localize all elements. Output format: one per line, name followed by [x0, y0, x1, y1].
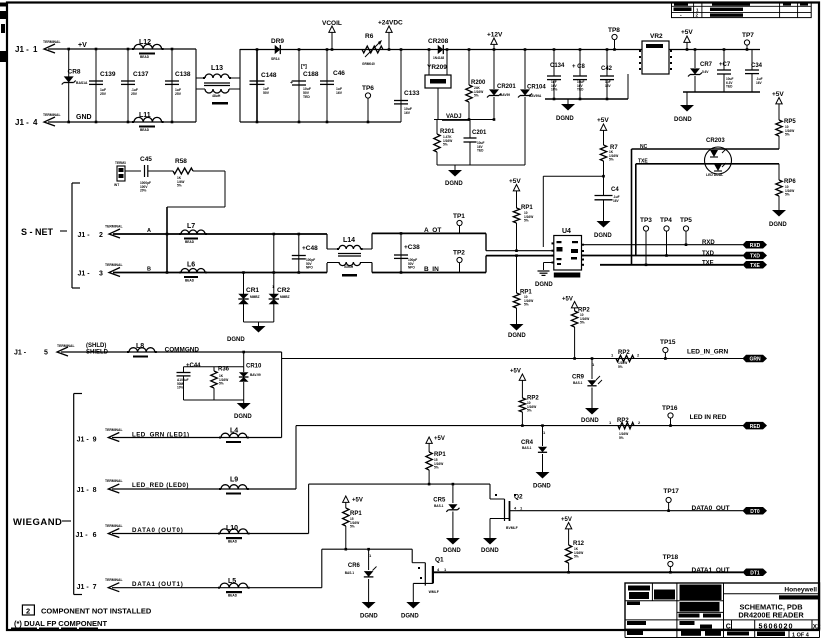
svg-text:TERMINAL: TERMINAL	[105, 428, 123, 432]
svg-text:5%: 5%	[177, 184, 182, 188]
svg-text:C: C	[726, 623, 731, 630]
svg-text:4: 4	[33, 118, 38, 127]
svg-text:L6: L6	[187, 262, 195, 269]
svg-text:CR208: CR208	[428, 38, 449, 45]
svg-text:J1 -: J1 -	[77, 584, 90, 591]
svg-text:COMPONENT NOT INSTALLED: COMPONENT NOT INSTALLED	[41, 607, 152, 616]
svg-text:16V: 16V	[756, 81, 763, 85]
svg-text:A_OT: A_OT	[424, 227, 441, 234]
svg-text:TXE: TXE	[702, 260, 714, 266]
svg-text:5%: 5%	[618, 365, 623, 369]
svg-text:L7: L7	[187, 223, 195, 230]
svg-text:GRM040: GRM040	[362, 62, 375, 66]
svg-text:J1 -: J1 -	[15, 45, 29, 54]
svg-text:1: 1	[369, 553, 372, 558]
svg-text:5%: 5%	[609, 158, 614, 162]
svg-text:C188: C188	[303, 71, 319, 78]
svg-text:BEAD: BEAD	[228, 594, 238, 598]
svg-text:BEAD: BEAD	[185, 240, 195, 244]
svg-text:+5V: +5V	[597, 117, 609, 124]
svg-text:LED_IN_GRN: LED_IN_GRN	[687, 349, 728, 356]
svg-text:MMBZ: MMBZ	[280, 295, 290, 299]
svg-text:+V: +V	[78, 42, 87, 49]
svg-text:BAS.1: BAS.1	[345, 571, 355, 575]
svg-text:SHIELD: SHIELD	[86, 350, 109, 356]
svg-text:RP2: RP2	[617, 418, 629, 424]
svg-text:5%: 5%	[619, 436, 624, 440]
svg-text:TP15: TP15	[660, 339, 676, 346]
svg-text:BVMLF: BVMLF	[506, 526, 518, 530]
svg-text:C34: C34	[751, 63, 763, 69]
svg-text:1: 1	[609, 420, 612, 425]
svg-text:DGND: DGND	[581, 418, 599, 424]
svg-text:CR6: CR6	[348, 563, 361, 569]
svg-text:+5V: +5V	[562, 297, 573, 303]
svg-text:BEAD: BEAD	[228, 540, 238, 544]
svg-text:TP8: TP8	[608, 27, 620, 34]
svg-text:TXD: TXD	[702, 251, 715, 257]
svg-text:+5V: +5V	[509, 178, 521, 185]
svg-text:J1 -: J1 -	[76, 532, 89, 539]
svg-text:+5V: +5V	[352, 498, 363, 504]
svg-text:TP5: TP5	[680, 217, 692, 224]
svg-text:DT0: DT0	[750, 509, 760, 515]
svg-text:B: B	[147, 267, 151, 273]
svg-text:C4: C4	[611, 187, 619, 193]
svg-text:CR201: CR201	[497, 84, 516, 90]
svg-text:LED DUAL: LED DUAL	[706, 173, 723, 177]
svg-text:1: 1	[33, 45, 38, 54]
svg-text:1: 1	[520, 506, 523, 511]
svg-text:C138: C138	[175, 71, 191, 78]
svg-text:BAS.1: BAS.1	[434, 504, 444, 508]
svg-text:3: 3	[99, 271, 103, 278]
svg-text:L9: L9	[230, 477, 238, 484]
svg-text:1: 1	[444, 567, 447, 572]
svg-text:48uH: 48uH	[212, 94, 221, 98]
svg-text:RXD: RXD	[750, 243, 761, 249]
svg-text:2: 2	[638, 420, 641, 425]
svg-text:1: 1	[611, 353, 614, 358]
svg-text:RP2: RP2	[618, 350, 630, 356]
svg-text:CR203: CR203	[706, 138, 725, 144]
svg-text:DGND: DGND	[401, 614, 419, 620]
svg-text:TP18: TP18	[663, 554, 679, 561]
svg-text:[*]: [*]	[301, 64, 307, 70]
svg-text:C201: C201	[472, 130, 487, 136]
svg-text:1: 1	[592, 362, 595, 367]
svg-text:1: 1	[272, 284, 275, 289]
svg-text:R36: R36	[218, 367, 230, 373]
svg-text:25V: 25V	[131, 92, 138, 96]
svg-text:+C48: +C48	[302, 245, 318, 252]
svg-text:2: 2	[99, 232, 103, 239]
svg-text:5%: 5%	[350, 525, 355, 529]
svg-text:DATA1_OUT: DATA1_OUT	[692, 567, 730, 574]
svg-text:BEAD: BEAD	[140, 55, 150, 59]
svg-text:TXE: TXE	[638, 159, 648, 165]
svg-text:CR7: CR7	[700, 62, 713, 68]
svg-text:9: 9	[93, 437, 97, 444]
svg-text:WIEGAND: WIEGAND	[13, 517, 62, 528]
svg-text:C46: C46	[333, 70, 345, 77]
svg-text:J1 -: J1 -	[77, 487, 90, 494]
svg-text:10%: 10%	[177, 386, 184, 390]
svg-text:8: 8	[93, 487, 97, 494]
svg-text:TP17: TP17	[663, 488, 679, 495]
svg-text:6: 6	[93, 532, 97, 539]
svg-text:20%: 20%	[140, 189, 147, 193]
svg-text:LED_GRN (LED1): LED_GRN (LED1)	[132, 432, 190, 439]
svg-text:16V: 16V	[404, 111, 411, 115]
svg-text:TP4: TP4	[660, 217, 672, 224]
svg-text:C134: C134	[550, 63, 565, 69]
svg-text:DGND: DGND	[360, 614, 378, 620]
svg-text:TP16: TP16	[662, 405, 678, 412]
svg-text:+5V: +5V	[681, 29, 693, 36]
svg-text:NPO: NPO	[408, 266, 415, 270]
svg-text:S - NET: S - NET	[21, 227, 54, 237]
svg-text:16V: 16V	[336, 91, 343, 95]
svg-text:TERMINAL: TERMINAL	[43, 40, 61, 44]
svg-text:53mH: 53mH	[344, 265, 354, 269]
svg-text:J1 -: J1 -	[14, 350, 27, 357]
svg-text:DATA0 (OUT0): DATA0 (OUT0)	[132, 527, 184, 534]
svg-text:B_IN: B_IN	[424, 266, 439, 273]
svg-text:C42: C42	[601, 66, 613, 72]
svg-text:+C7: +C7	[719, 62, 731, 68]
svg-text:DR4200E READER: DR4200E READER	[738, 611, 804, 620]
svg-text:4: 4	[437, 567, 440, 572]
svg-text:DGND: DGND	[227, 337, 245, 343]
svg-text:+C38: +C38	[404, 244, 420, 251]
svg-text:16V: 16V	[605, 84, 612, 88]
svg-text:X2: X2	[813, 623, 821, 630]
svg-text:25V: 25V	[100, 92, 107, 96]
svg-text:BAV.99: BAV.99	[250, 373, 261, 377]
svg-text:BEAD: BEAD	[185, 279, 195, 283]
svg-text:CR10: CR10	[246, 364, 262, 370]
svg-text:DGND: DGND	[481, 548, 499, 554]
svg-text:YR209: YR209	[427, 64, 447, 71]
svg-text:25V: 25V	[175, 92, 182, 96]
svg-text:+C44: +C44	[186, 363, 201, 369]
svg-text:+5V: +5V	[434, 436, 445, 442]
svg-text:TERMINAL: TERMINAL	[43, 113, 61, 117]
svg-text:5606020: 5606020	[759, 622, 794, 631]
svg-text:+5V: +5V	[561, 517, 572, 523]
svg-text:NPO: NPO	[306, 266, 313, 270]
svg-text:WMLF: WMLF	[429, 590, 439, 594]
svg-text:L13: L13	[211, 65, 223, 72]
svg-text:DGND: DGND	[533, 484, 551, 490]
svg-text:L10: L10	[226, 525, 238, 532]
svg-text:TERMINAL: TERMINAL	[105, 479, 123, 483]
svg-text:BAS.1: BAS.1	[573, 381, 583, 385]
svg-text:C139: C139	[100, 71, 116, 78]
svg-text:1: 1	[696, 7, 699, 12]
svg-text:DGND: DGND	[594, 233, 612, 239]
svg-text:TXD: TXD	[750, 254, 760, 260]
svg-text:5%: 5%	[580, 321, 585, 325]
svg-text:50V: 50V	[263, 91, 270, 95]
svg-text:DGND: DGND	[769, 222, 787, 228]
svg-text:SR14: SR14	[271, 57, 280, 61]
svg-text:MMBZ: MMBZ	[250, 295, 260, 299]
svg-text:COMMGND: COMMGND	[165, 347, 200, 354]
svg-text:+5V: +5V	[510, 369, 521, 375]
svg-text:1 OF 4: 1 OF 4	[792, 633, 810, 638]
svg-text:J1 -: J1 -	[77, 437, 90, 444]
svg-text:(SHLD): (SHLD)	[86, 343, 106, 349]
svg-text:TED: TED	[726, 85, 733, 89]
svg-text:DT1: DT1	[750, 571, 760, 577]
svg-text:TP2: TP2	[453, 250, 465, 257]
svg-text:TED: TED	[303, 95, 310, 99]
svg-text:J1 -: J1 -	[78, 232, 91, 239]
svg-text:U4: U4	[562, 228, 571, 235]
svg-text:DGND: DGND	[508, 333, 526, 339]
svg-text:TERMINAL: TERMINAL	[105, 524, 123, 528]
svg-text:C137: C137	[133, 71, 149, 78]
svg-text:TERMINAL: TERMINAL	[105, 578, 123, 582]
svg-text:VR2: VR2	[650, 33, 663, 40]
svg-text:5%: 5%	[434, 466, 439, 470]
svg-text:CR9: CR9	[572, 375, 585, 381]
svg-text:5%: 5%	[785, 133, 790, 137]
svg-text:CR2: CR2	[277, 287, 290, 294]
svg-text:TED: TED	[577, 88, 584, 92]
svg-text:DGND: DGND	[443, 548, 461, 554]
svg-text:GND: GND	[76, 114, 92, 121]
svg-text:C45: C45	[140, 156, 152, 163]
svg-text:5: 5	[44, 350, 48, 357]
svg-text:DATA1 (OUT1): DATA1 (OUT1)	[132, 581, 184, 588]
svg-text:5.6V: 5.6V	[702, 70, 709, 74]
svg-text:TP7: TP7	[742, 32, 754, 39]
svg-text:TP1: TP1	[453, 213, 465, 220]
svg-text:5%: 5%	[474, 94, 479, 98]
svg-text:BAV99A: BAV99A	[529, 94, 542, 98]
svg-text:CR8: CR8	[68, 69, 81, 76]
svg-text:L14: L14	[343, 237, 355, 244]
svg-text:2: 2	[26, 606, 30, 615]
svg-text:+24VDC: +24VDC	[378, 20, 403, 27]
svg-text:C148: C148	[261, 72, 277, 79]
svg-text:DGND: DGND	[535, 282, 553, 288]
svg-text:A: A	[147, 228, 151, 234]
svg-text:2: 2	[696, 13, 699, 18]
svg-text:J1 -: J1 -	[15, 118, 29, 127]
svg-text:NC: NC	[640, 144, 648, 150]
svg-text:DGND: DGND	[674, 117, 692, 123]
svg-text:DGND: DGND	[234, 414, 252, 420]
svg-text:CR5: CR5	[433, 498, 446, 504]
svg-text:+: +	[290, 80, 293, 86]
svg-text:2: 2	[637, 353, 640, 358]
svg-text:DATA0_OUT: DATA0_OUT	[692, 505, 730, 512]
svg-text:DGND: DGND	[445, 181, 463, 187]
svg-text:TP3: TP3	[640, 217, 652, 224]
svg-text:5%: 5%	[785, 193, 790, 197]
svg-text:+12V: +12V	[487, 32, 503, 39]
svg-text:Q1: Q1	[435, 557, 444, 564]
svg-text:GRN: GRN	[749, 357, 761, 363]
svg-text:5%: 5%	[219, 382, 224, 386]
svg-text:TED: TED	[477, 149, 484, 153]
svg-text:DGND: DGND	[556, 116, 574, 122]
svg-text:TERMINAL: TERMINAL	[105, 263, 123, 267]
svg-text:R6: R6	[365, 33, 374, 40]
svg-text:RED: RED	[750, 424, 761, 430]
svg-text:BAV99: BAV99	[500, 93, 510, 97]
svg-text:5%: 5%	[524, 219, 529, 223]
svg-text:CR1: CR1	[246, 287, 259, 294]
svg-text:L8: L8	[136, 343, 144, 350]
svg-text:CR104: CR104	[527, 85, 546, 91]
svg-text:TERMINAL: TERMINAL	[105, 225, 123, 229]
svg-text:BAS1A: BAS1A	[76, 81, 88, 85]
svg-text:Honeywell: Honeywell	[784, 587, 817, 594]
svg-text:+ C8: + C8	[572, 64, 586, 70]
svg-text:5%: 5%	[527, 409, 532, 413]
svg-text:10%: 10%	[551, 88, 558, 92]
svg-text:INT: INT	[114, 183, 119, 187]
svg-text:(*) DUAL FP COMPONENT: (*) DUAL FP COMPONENT	[14, 619, 107, 628]
svg-text:LED_RED (LED0): LED_RED (LED0)	[132, 482, 189, 489]
svg-text:1: 1	[543, 430, 546, 435]
svg-text:TP6: TP6	[362, 85, 374, 92]
svg-text:4: 4	[514, 506, 517, 511]
svg-text:TXE: TXE	[750, 263, 760, 269]
svg-text:5%: 5%	[524, 303, 529, 307]
svg-text:BAS.1: BAS.1	[522, 446, 532, 450]
svg-text:5%: 5%	[443, 143, 448, 147]
svg-text:C133: C133	[404, 90, 420, 97]
svg-text:LED IN RED: LED IN RED	[690, 414, 727, 421]
svg-text:DR9: DR9	[271, 38, 284, 45]
svg-text:TERM3: TERM3	[115, 161, 126, 165]
svg-text:5%: 5%	[574, 555, 579, 559]
svg-text:BEAD: BEAD	[140, 128, 150, 132]
svg-text:RXD: RXD	[702, 240, 715, 246]
svg-text:R58: R58	[175, 158, 187, 165]
svg-text:1N4148: 1N4148	[433, 56, 444, 60]
svg-text:16V: 16V	[613, 199, 620, 203]
svg-text:7: 7	[93, 584, 97, 591]
svg-text:J1 -: J1 -	[78, 271, 91, 278]
svg-text:+5V: +5V	[772, 91, 784, 98]
